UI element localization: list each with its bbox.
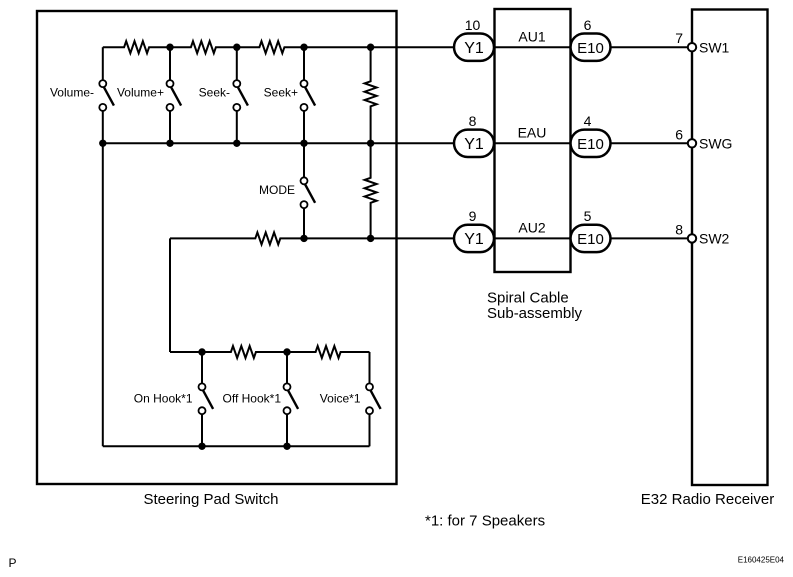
svg-text:8: 8: [469, 113, 477, 129]
svg-text:10: 10: [465, 17, 481, 33]
resistor R5 vertical lower: [365, 143, 377, 238]
radio receiver box: [692, 10, 768, 486]
connector E10 pin 4: [571, 130, 611, 157]
connector Y1 pin 8: [454, 130, 494, 157]
switch Voice: [366, 352, 381, 446]
pin circle SW2: [688, 234, 696, 242]
wire AU2 through spiral box: [494, 237, 571, 239]
switch Seek-: [233, 47, 248, 143]
wire EAU through spiral box: [494, 142, 571, 144]
svg-text:AU2: AU2: [518, 220, 545, 236]
junction dots row1: [166, 44, 374, 51]
svg-text:E10: E10: [577, 231, 604, 248]
wire bottom row: [103, 445, 370, 447]
spiral cable sub-assembly box: [495, 9, 571, 272]
svg-text:Sub-assembly: Sub-assembly: [487, 305, 583, 322]
svg-text:E10: E10: [577, 136, 604, 153]
svg-text:6: 6: [584, 17, 592, 33]
junction dots row2: [99, 140, 374, 147]
pin circle SW1: [688, 43, 696, 51]
svg-text:E160425E04: E160425E04: [738, 556, 785, 565]
svg-text:EAU: EAU: [518, 125, 547, 141]
connector E10 pin 5: [571, 225, 611, 252]
svg-text:Volume-: Volume-: [50, 86, 94, 100]
switch On Hook: [199, 352, 214, 446]
connector Y1 pin 10: [454, 34, 494, 61]
pin circle SWG: [688, 139, 696, 147]
svg-text:Voice*1: Voice*1: [320, 392, 361, 406]
junction dots bottom row: [198, 443, 290, 450]
svg-text:Seek+: Seek+: [264, 86, 298, 100]
svg-text:AU1: AU1: [518, 29, 545, 45]
connector Y1 pin 9: [454, 225, 494, 252]
svg-text:Off Hook*1: Off Hook*1: [223, 392, 282, 406]
wire AU1 through spiral box: [494, 46, 571, 48]
svg-text:9: 9: [469, 208, 477, 224]
svg-text:SW2: SW2: [699, 231, 730, 247]
wire row2: [103, 142, 454, 144]
resistor R4 vertical upper: [365, 47, 377, 143]
svg-text:6: 6: [675, 126, 683, 142]
svg-text:*1: for 7 Speakers: *1: for 7 Speakers: [425, 513, 545, 530]
wire row3 with resistor R6: [170, 232, 454, 244]
svg-text:P: P: [9, 556, 17, 570]
svg-text:Spiral Cable: Spiral Cable: [487, 289, 569, 306]
switch MODE: [301, 143, 316, 238]
svg-text:Steering Pad Switch: Steering Pad Switch: [143, 491, 278, 508]
switch Off Hook: [284, 352, 299, 446]
junction dots hook row: [198, 348, 290, 355]
svg-text:Y1: Y1: [464, 40, 484, 57]
connector E10 pin 6: [571, 34, 611, 61]
svg-text:Seek-: Seek-: [199, 86, 230, 100]
svg-text:On Hook*1: On Hook*1: [134, 392, 193, 406]
switch Volume-: [99, 47, 114, 143]
svg-text:8: 8: [675, 221, 683, 237]
svg-text:MODE: MODE: [259, 183, 295, 197]
wire E10 to SWG: [611, 142, 688, 144]
wire hook row with resistors R7 R8: [170, 346, 370, 358]
svg-text:Volume+: Volume+: [117, 86, 164, 100]
wire vertical row3 corner down to hook row: [169, 238, 171, 352]
switch Seek+: [301, 47, 316, 143]
svg-text:E32 Radio Receiver: E32 Radio Receiver: [641, 491, 774, 508]
wire left vertical from row2 to bottom row: [102, 143, 104, 446]
wire E10 to SW1: [611, 46, 688, 48]
svg-text:7: 7: [675, 30, 683, 46]
junction dots row3: [300, 235, 374, 242]
svg-text:4: 4: [584, 113, 592, 129]
svg-text:Y1: Y1: [464, 136, 484, 153]
steering pad switch box: [37, 11, 397, 484]
svg-text:SW1: SW1: [699, 40, 730, 56]
wire E10 to SW2: [611, 237, 688, 239]
wire row1 with resistors R1 R2 R3: [103, 41, 454, 53]
svg-text:5: 5: [584, 208, 592, 224]
switch Volume+: [167, 47, 182, 143]
svg-text:E10: E10: [577, 40, 604, 57]
svg-text:Y1: Y1: [464, 231, 484, 248]
svg-text:SWG: SWG: [699, 136, 732, 152]
